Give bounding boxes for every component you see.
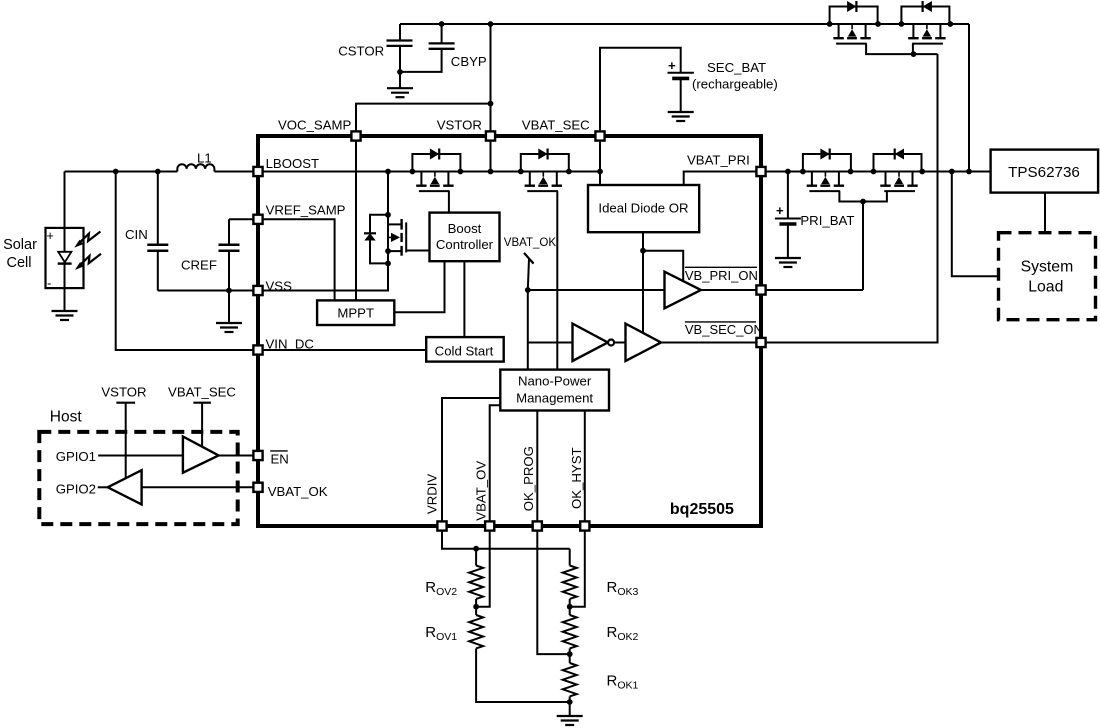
svg-text:VB_SEC_ON: VB_SEC_ON [685,322,763,337]
pin OK_PROG [533,521,542,530]
wire LBOOST rail (external left + internal to VBAT_SEC junction) [65,171,178,173]
wire VB_PRI_ON buffer output [701,289,761,291]
wire VSS internal [258,172,388,291]
wire solar cell top riser [64,172,66,229]
wire VBAT_SEC pin to Ideal Diode OR [599,136,601,185]
wire VOC_SAMP internal drop to MPPT [355,136,357,300]
block TPS62736 [991,150,1099,193]
photon arrow 1 into solar cell [74,232,100,248]
node ROV divider junction [473,604,479,610]
overline VB_SEC_ON [685,321,756,323]
wire CBYP stem [441,24,443,43]
node VSTOR rail tap [488,169,494,175]
node Q6 right [566,169,572,175]
ground solar cell [52,311,78,320]
wire Q5 gate to Boost Controller [448,191,450,213]
svg-text:+: + [47,229,54,243]
pin VOC_SAMP [351,131,360,140]
wire ROK3 bottom stem [569,599,571,615]
svg-text:TPS62736: TPS62736 [1008,164,1080,181]
svg-text:VBAT_SEC: VBAT_SEC [168,385,236,400]
svg-text:GPIO1: GPIO1 [56,449,96,464]
node small FET rail junction [385,169,391,175]
block System Load dashed box [999,233,1096,320]
svg-text:LBOOST: LBOOST [266,156,320,171]
node ROK1 ground junction [567,699,573,705]
ground PRI_BAT [775,258,801,267]
wire CSTOR bottom [399,47,401,88]
pin VSS [253,286,262,295]
inductor L1 [177,164,214,171]
node Q6 left [518,169,524,175]
svg-text:VRDIV: VRDIV [425,474,440,515]
wire VB_PRI_ON buffer input [528,289,665,291]
resistor ROK3 [563,566,577,599]
wire VB_PRI_ON pin to gate line [761,289,863,291]
resistor ROK2 [563,615,577,648]
svg-text:VBAT_OK: VBAT_OK [504,237,557,249]
node ROK2 ROK1 junction [567,651,573,657]
svg-text:VBAT_SEC: VBAT_SEC [522,117,590,132]
pin VBAT_SEC [595,131,604,140]
svg-text:EN: EN [271,451,289,466]
node Q1 right [875,21,881,27]
svg-text:VOC_SAMP: VOC_SAMP [278,117,351,132]
wire VIN_DC internal [258,349,426,351]
block MPPT [317,300,394,325]
wire solar cell to ground [64,288,66,311]
svg-text:System: System [1021,258,1074,275]
wire solar cell internal vertical [64,228,66,288]
supply VSTOR host stub [116,403,135,478]
node Q3 Q4 gate join [860,199,866,205]
node Q2 right [947,21,953,27]
wire VBAT_OV internal [490,405,501,520]
svg-text:OK_HYST: OK_HYST [569,447,584,509]
resistor ROV1 [469,615,483,648]
block Cold Start [426,337,504,362]
svg-text:VBAT_OK: VBAT_OK [268,484,328,499]
svg-text:VB_PRI_ON: VB_PRI_ON [685,268,758,283]
svg-text:CREF: CREF [181,258,217,273]
pin OK_HYST [580,521,589,530]
capacitor CIN [147,245,168,251]
svg-text:VSTOR: VSTOR [437,117,482,132]
wire PRI_BAT stem [787,172,789,218]
photon arrow 2 into solar cell [75,254,101,270]
node Q1 left [827,21,833,27]
pin EN [253,451,262,460]
wire ROV2 top stem [475,549,477,566]
op-amp GPIO2 inverter [108,470,142,504]
node VBAT_SEC rail junction [597,169,603,175]
wire OK_HYST internal [584,411,586,521]
svg-text:Boost: Boost [448,221,482,236]
capacitor CREF [219,245,240,251]
switch VBAT_OK [524,253,534,290]
op-amp GPIO1 buffer [183,437,219,473]
capacitor CSTOR [387,41,413,46]
ground CREF [216,323,242,332]
pin VBAT_PRI [756,167,765,176]
node VSTOR-switch riser junction [966,169,972,175]
svg-text:CSTOR: CSTOR [338,44,384,59]
wire OK_HYST external [570,532,585,607]
wire VBAT_OK pin to inverter [142,486,258,488]
transistor Q3 VBAT_PRI switch FET left [803,149,851,192]
pin VBAT_OV [485,521,494,530]
svg-text:VSTOR: VSTOR [101,385,146,400]
svg-text:CIN: CIN [125,227,148,242]
svg-text:bq25505: bq25505 [670,501,734,518]
svg-text:VIN_DC: VIN_DC [266,337,315,352]
wire Q2 gate drop [912,44,914,55]
node VIN_DC branch junction [113,169,119,175]
op-amp VB_SEC_ON buffer [626,324,662,361]
wire CBYP bottom [400,50,442,72]
transistor Q2 VSTOR switch FET right [901,1,949,44]
wire buffer to EN pin [219,455,258,457]
wire CREF bottom through VSS to ground [228,252,230,323]
resistor ROK1 [563,663,577,696]
wire VIN_DC branch vertical [116,172,258,351]
wire VSTOR pin to rail [490,136,492,172]
wire VB_PRI_ON gate line [862,202,864,291]
block Nano-Power Management [500,370,609,411]
wire Q6 gate to Nano-Power Management [556,191,558,370]
ground resistor network [557,716,583,725]
wire VBAT_PRI rail to TPS62736 [761,171,991,173]
node Q2 left [899,21,905,27]
wire inverter to GPIO2 [98,486,108,488]
node CSTOR/CBYP bottom junction [397,69,403,75]
wire CIN stem top [157,172,159,245]
wire VREF_SAMP internal to MPPT [258,219,335,300]
wire ROV1 top stem [475,607,477,615]
svg-text:Nano-Power: Nano-Power [518,373,592,388]
transistor Q7 MPPT sense FET with diode [364,212,406,266]
wire CSTOR stem [399,24,401,40]
wire ROV2 bottom stem [475,599,477,607]
svg-text:(rechargeable): (rechargeable) [692,77,778,92]
wire inverter chain input [528,342,573,344]
svg-text:Load: Load [1028,279,1063,296]
wire ROK1 bottom stem [569,697,571,716]
node ROK3 ROK2 junction [567,604,573,610]
wire VRDIV external [442,532,570,549]
svg-text:CBYP: CBYP [451,54,487,69]
wire CREF stem top [228,219,230,244]
wire Boost Controller to Cold Start [463,261,465,337]
wire Q7 gate to Boost Controller [406,250,429,252]
svg-text:VBAT_PRI: VBAT_PRI [687,152,750,167]
node Ideal Diode output junction [640,248,646,254]
wire OK_PROG internal [536,411,538,521]
ground CSTOR [387,88,413,97]
wire VSTOR riser [490,24,492,131]
wire inverter to buffer [614,342,625,344]
pin VSTOR [486,131,495,140]
supply VBAT_SEC host stub [193,403,211,447]
node Q3 right [848,169,854,175]
svg-text:PRI_BAT: PRI_BAT [800,213,854,228]
wire GPIO1 to buffer [98,455,183,457]
op-amp VB_PRI_ON buffer [665,272,702,309]
node VSTOR/VOC link junction [488,101,494,107]
pin VREF_SAMP [253,215,262,224]
block Ideal Diode OR [588,185,699,232]
svg-text:L1: L1 [197,150,212,165]
block Host dashed box [39,432,237,524]
svg-text:MPPT: MPPT [337,305,374,320]
wire rail between Q1 Q2 [878,23,901,25]
solar cell box [46,228,84,288]
pin VBAT_OK [253,483,262,492]
pin VRDIV [437,521,446,530]
node Q4 right [919,169,925,175]
node Q5 left [410,169,416,175]
wire SEC_BAT to ground [680,80,682,112]
node PRI_BAT tap [785,169,791,175]
node ROV2 top junction [473,546,479,552]
svg-text:+: + [668,58,676,73]
svg-text:GPIO2: GPIO2 [56,481,96,496]
transistor Q5 internal rectifier FET (LBOOST-VSTOR) [412,149,460,192]
wire MPPT to Boost Controller [394,261,444,312]
block Boost Controller [430,213,500,262]
wire VBAT_PRI pin to Ideal Diode OR [684,172,761,186]
wire ROK3 top stem [569,549,571,566]
svg-text:VBAT_OV: VBAT_OV [474,461,489,521]
wire ROV1 bottom to ground node [476,649,570,703]
wire VBAT_SEC riser to SEC_BAT [600,48,681,131]
photodiode in solar cell [58,252,72,264]
svg-text:Host: Host [50,408,83,425]
wire TPS62736 to system load [1044,193,1046,233]
svg-text:+: + [776,203,784,218]
gate inverter U1 [573,324,615,361]
wire Ideal Diode to VB_PRI_ON buffer [643,251,683,281]
wire VREF_SAMP external [229,218,258,220]
svg-text:VREF_SAMP: VREF_SAMP [266,202,346,217]
svg-text:Ideal Diode OR: Ideal Diode OR [598,200,688,215]
transistor Q6 internal FET (VSTOR-VBAT_SEC) [521,149,569,192]
wire PRI_BAT to ground [787,226,789,258]
svg-text:Solar: Solar [3,237,37,253]
wire VSTOR top rail [400,23,969,25]
IC bq25505 outline [258,136,761,526]
pin VB_SEC_ON [756,338,765,347]
node Q3 left [800,169,806,175]
svg-text:Controller: Controller [436,237,494,252]
svg-text:Cell: Cell [7,255,32,271]
svg-text:Cold Start: Cold Start [435,344,494,359]
wire VB_SEC_ON gate line [761,54,938,342]
node CBYP top junction [439,21,445,27]
wire VB_SEC_ON buffer output [662,342,762,344]
pin LBOOST [253,167,262,176]
svg-text:Management: Management [516,391,593,406]
ground SEC_BAT [668,112,694,121]
node VBAT_OK junction [525,287,531,293]
wire Q2 to load riser [968,24,970,172]
node CREF/VSS junction [226,288,232,294]
wire ROK2 bottom stem [569,649,571,664]
wire VOC_SAMP link [356,104,491,131]
wire Q1 Q2 gate join [866,44,937,55]
wire VSS external line [158,290,258,292]
wire VBAT_OV external [476,532,490,607]
wire VRDIV internal [442,398,500,521]
wire VBAT_OK to Nano-Power [527,290,529,370]
overline VB_PRI_ON [685,266,757,268]
transistor Q4 VBAT_PRI switch FET right [874,149,922,192]
wire to system load [952,172,999,277]
wire Ideal Diode OR output [642,232,644,333]
wire OK_PROG external [537,532,569,655]
svg-text:-: - [47,276,51,291]
node gate join [911,51,917,57]
node Q4 left [871,169,877,175]
node VSTOR rail junction [488,21,494,27]
node system load tap [949,169,955,175]
wire Q3 Q4 gate join [839,191,887,201]
transistor Q1 VSTOR switch FET left [830,1,878,44]
resistor ROV2 [469,566,483,599]
overline EN [270,450,288,452]
svg-text:VSS: VSS [266,279,293,294]
node CIN junction [155,169,161,175]
capacitor CBYP [429,43,455,48]
pin VB_PRI_ON [756,285,765,294]
battery PRI_BAT [775,219,801,225]
pin VIN_DC [253,345,262,354]
svg-text:OK_PROG: OK_PROG [521,446,536,511]
node Q5 right [458,169,464,175]
battery SEC_BAT [668,73,694,79]
wire CIN bottom to VSS line [157,252,159,291]
svg-text:SEC_BAT: SEC_BAT [707,60,766,75]
